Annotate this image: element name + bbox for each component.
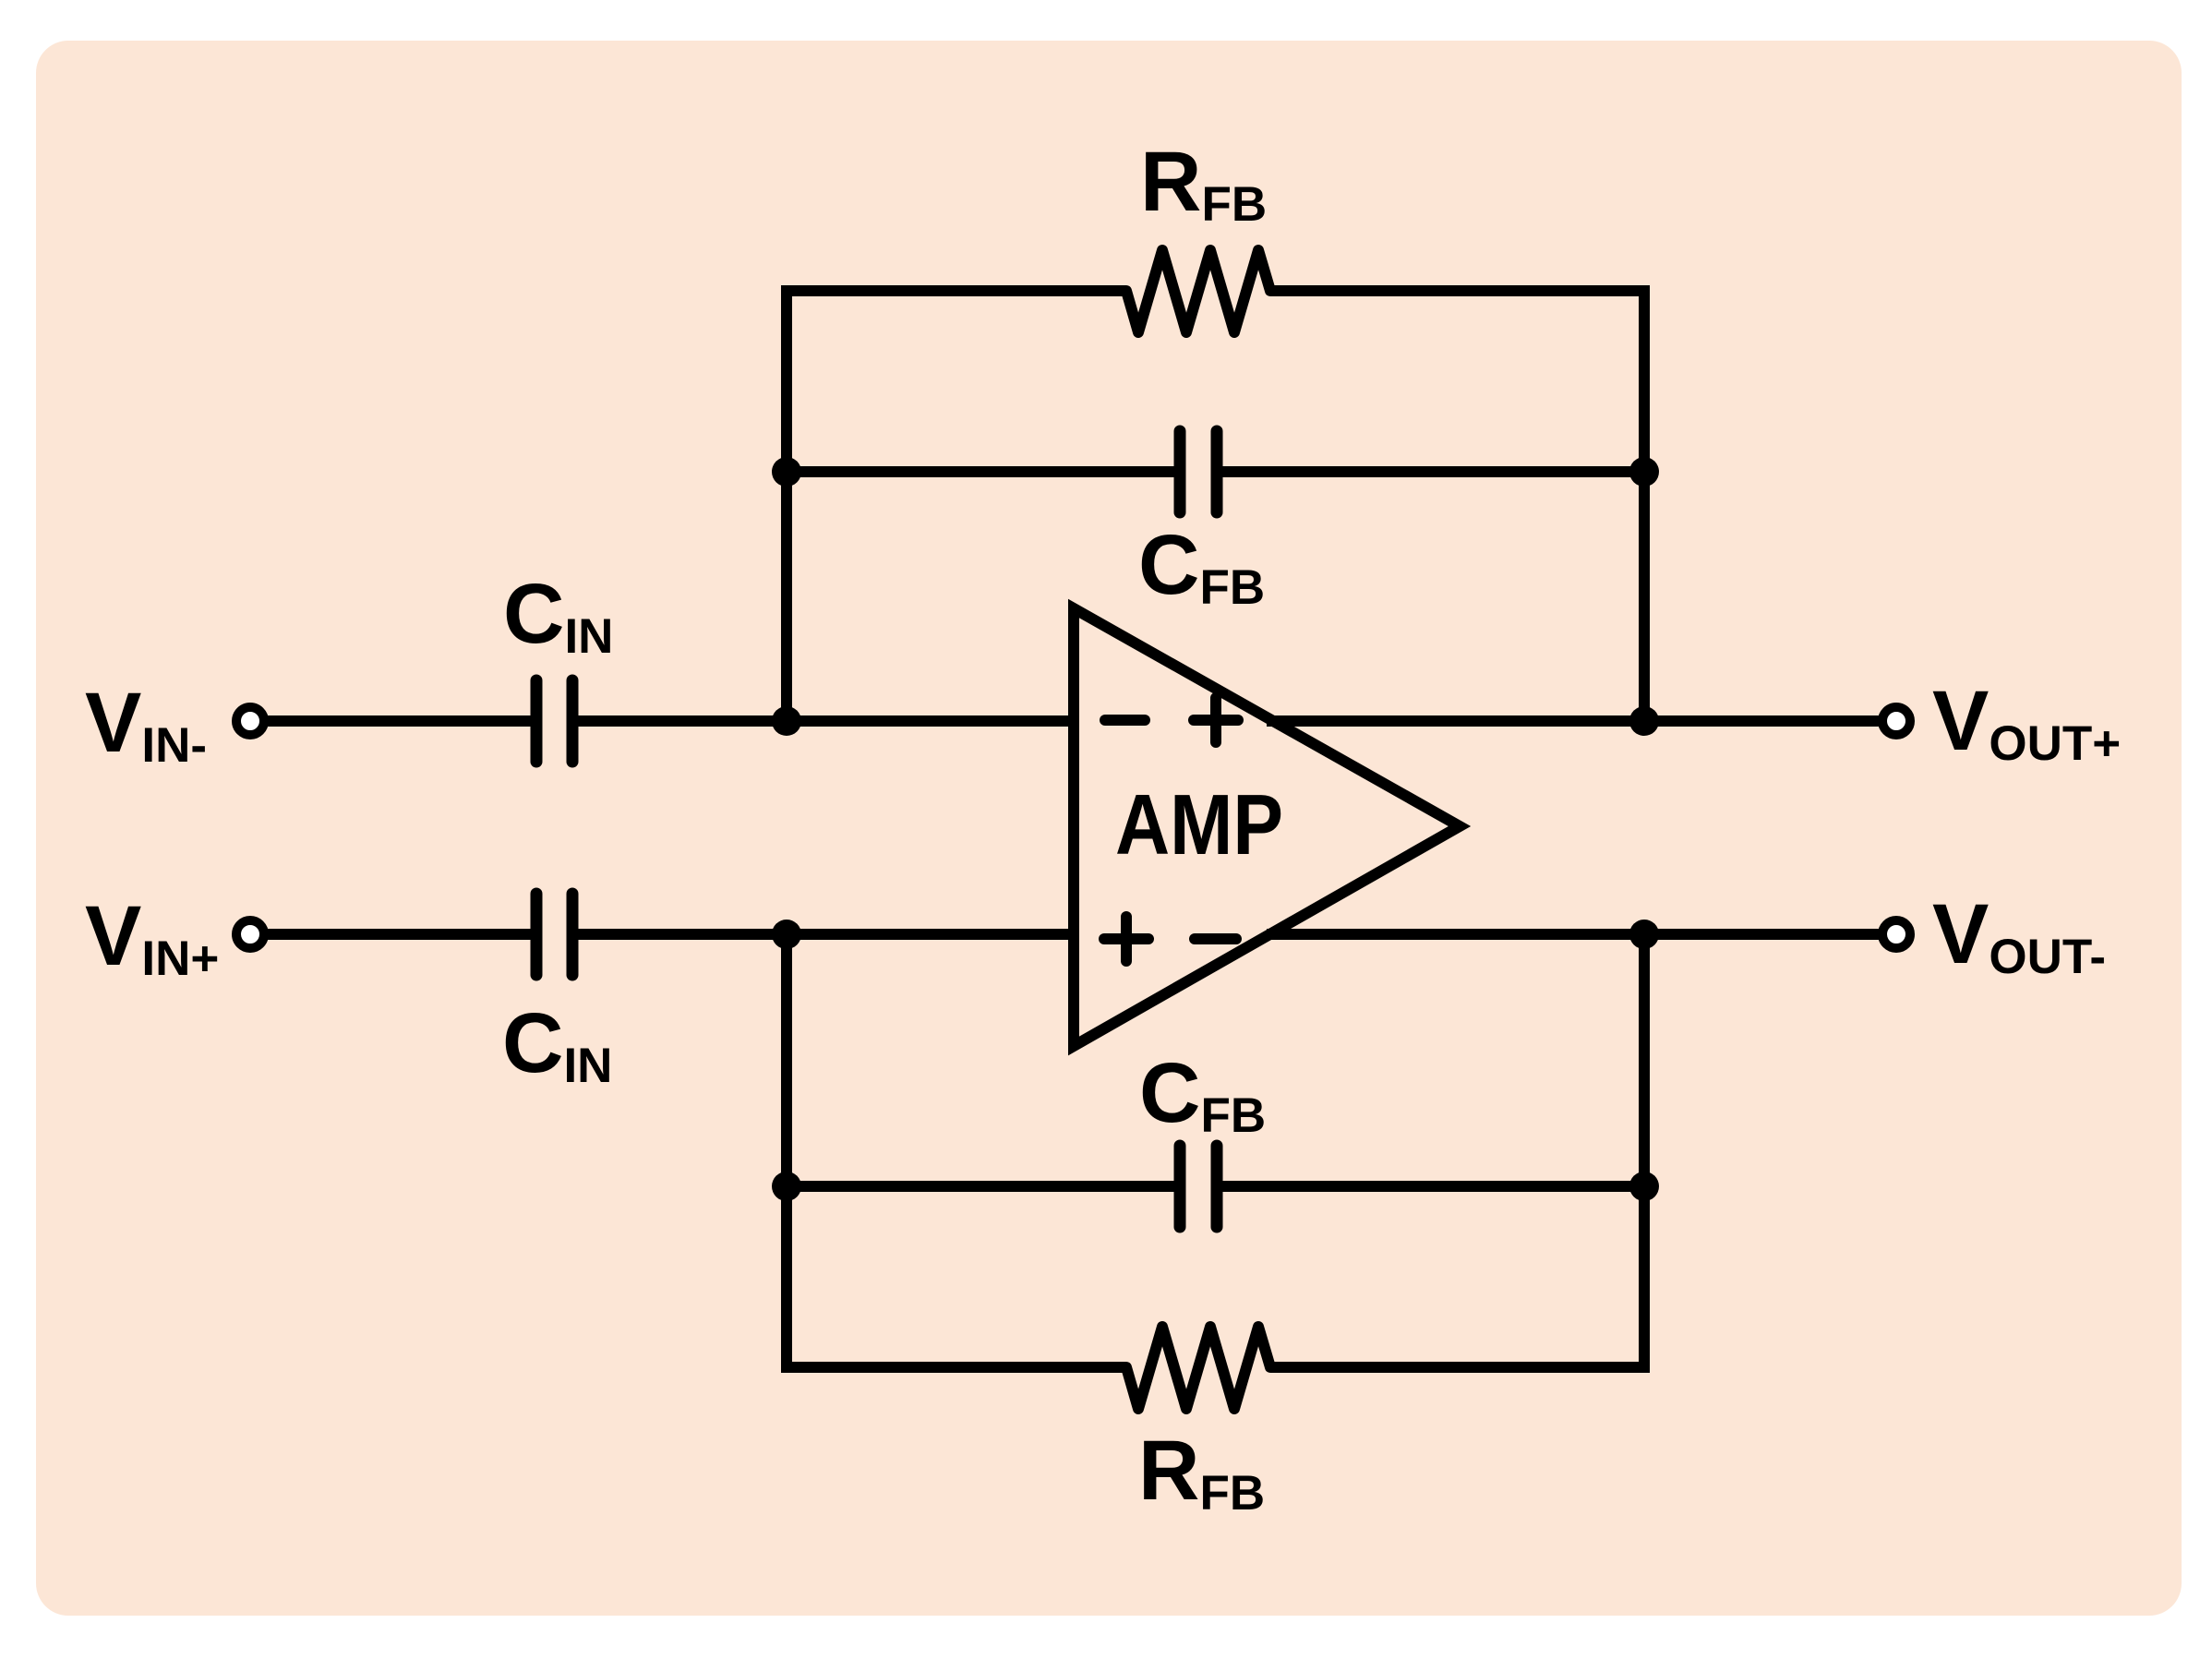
output polarity sign (+) top: [1194, 698, 1238, 742]
wire: top feedback loop right (rail + riser): [1270, 291, 1644, 721]
wire: CFB top left: [787, 466, 1175, 477]
wire VIN+ input to CIN bottom: [268, 929, 532, 940]
node: CFB bottom right junction: [1629, 1172, 1659, 1201]
wire: amp output to VOUT+: [1267, 715, 1879, 727]
wire CIN top to amp inverting input: [578, 715, 1079, 727]
wire: CFB bottom left: [787, 1181, 1175, 1192]
non-inverting input sign (+): [1104, 917, 1148, 961]
wire: top feedback loop left (riser + rail): [787, 291, 1126, 721]
inverting input sign (-): [1105, 715, 1145, 726]
input terminal VIN-: [236, 707, 264, 735]
wire: amp output to VOUT-: [1267, 929, 1879, 940]
wire: CFB top right: [1221, 466, 1644, 477]
wire CIN bottom to amp non-inverting input: [578, 929, 1079, 940]
op-amp AMP triangle: [1074, 608, 1460, 1046]
input terminal VIN+: [236, 920, 264, 948]
capacitor CIN (bottom): [536, 894, 572, 975]
resistor RFB (bottom): [1126, 1327, 1270, 1409]
node: non-inverting input junction: [772, 920, 801, 949]
node: VOUT- junction: [1629, 920, 1659, 949]
capacitor CIN (top): [536, 680, 572, 762]
output terminal VOUT+: [1882, 707, 1910, 735]
capacitor CFB (bottom): [1180, 1146, 1217, 1227]
svg-text:AMP: AMP: [1115, 776, 1283, 872]
resistor RFB (top): [1126, 250, 1270, 332]
node: inverting input junction: [772, 706, 801, 736]
node: CFB top left junction: [772, 457, 801, 487]
node: VOUT+ junction: [1629, 706, 1659, 736]
wire VIN- input to CIN top: [268, 715, 532, 727]
output terminal VOUT-: [1882, 920, 1910, 948]
node: CFB top right junction: [1629, 457, 1659, 487]
node: CFB bottom left junction: [772, 1172, 801, 1201]
capacitor CFB (top): [1180, 431, 1217, 512]
wire: bottom feedback loop right (rail + riser): [1270, 934, 1644, 1367]
wire: bottom feedback loop left (riser + rail): [787, 934, 1126, 1367]
output polarity sign (-) bottom: [1195, 933, 1236, 944]
wire: CFB bottom right: [1221, 1181, 1644, 1192]
